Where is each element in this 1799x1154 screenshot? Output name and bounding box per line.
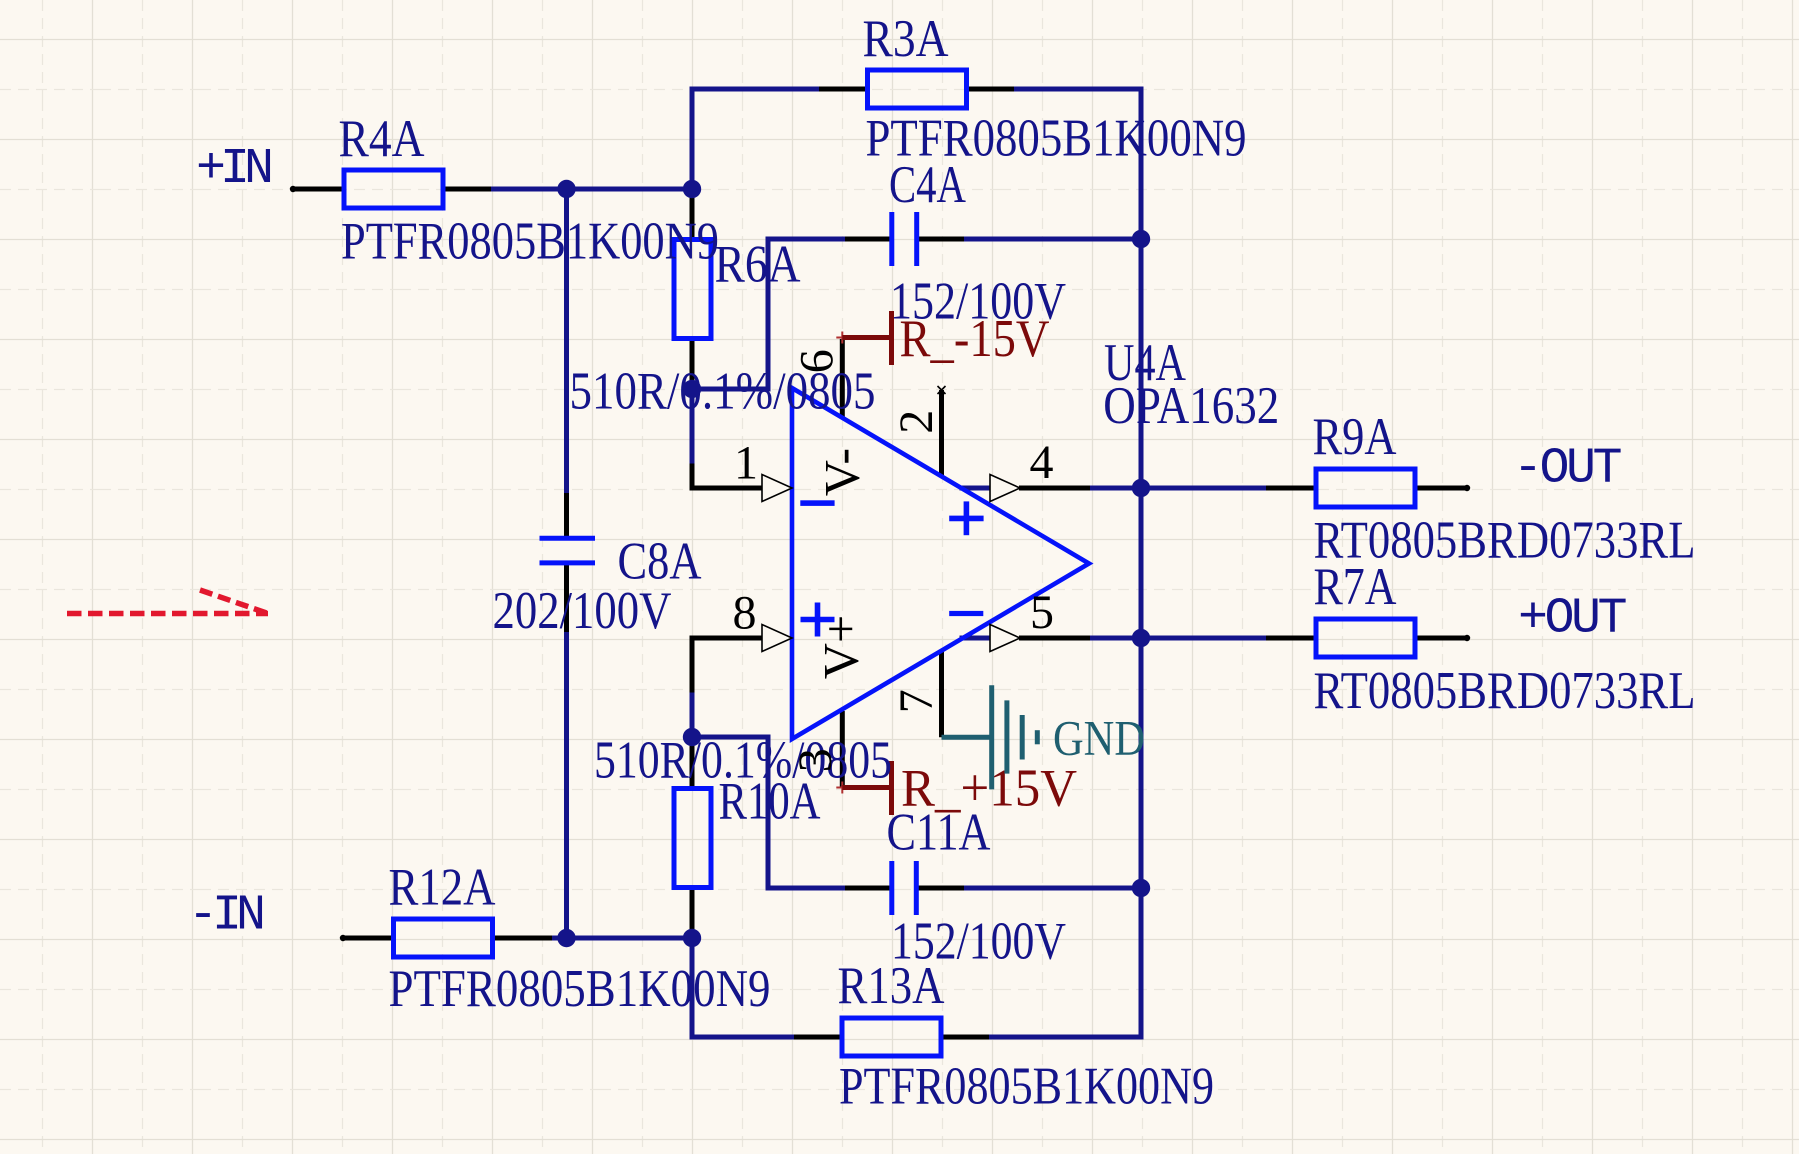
node +IN port end [290, 186, 296, 192]
node -IN port end [340, 935, 346, 941]
svg-text:C11A: C11A [887, 804, 991, 862]
svg-text:-IN: -IN [188, 888, 263, 945]
wire +IN node horizontal [490, 187, 692, 192]
svg-text:R7A: R7A [1314, 558, 1397, 616]
wire pin 1 lead [692, 466, 765, 488]
junction [1132, 629, 1150, 647]
wire -IN port lead [343, 936, 393, 941]
op-amp plus marker pin4 [949, 501, 983, 535]
power connection marker pin3 [836, 782, 848, 794]
svg-text:510R/0.1%/0805: 510R/0.1%/0805 [594, 732, 892, 790]
resistor R3A body [868, 70, 967, 108]
op-amp plus marker pin8 [801, 603, 835, 637]
svg-text:V-: V- [814, 448, 870, 496]
svg-text:152/100V: 152/100V [890, 273, 1066, 331]
wire R6A bottom lead [690, 338, 695, 390]
svg-text:8: 8 [733, 587, 757, 640]
svg-text:PTFR0805B1K00N9: PTFR0805B1K00N9 [389, 960, 771, 1018]
wire C8A bottom lead [564, 565, 569, 632]
pin 6 lead [840, 339, 845, 417]
svg-text:OPA1632: OPA1632 [1103, 377, 1279, 435]
wire R13A left lead [794, 1035, 842, 1040]
svg-text:R9A: R9A [1313, 408, 1397, 466]
wire R6A bottom to C4A [692, 239, 845, 389]
resistor R12A body [394, 919, 493, 957]
wire pin5 to R7A [1089, 636, 1266, 641]
capacitor C8A plates [540, 538, 596, 563]
pin 4 lead [1019, 486, 1090, 491]
resistor R9A body [1316, 469, 1415, 507]
op-amp U4A triangle [792, 388, 1089, 739]
resistor R4A body [344, 170, 443, 208]
wire C8A bottom feeder [564, 631, 569, 938]
svg-text:+OUT: +OUT [1518, 591, 1627, 648]
junction [683, 929, 701, 947]
svg-text:V+: V+ [813, 615, 869, 679]
wire R3A right to rail [968, 87, 1141, 92]
wire R4A right lead [444, 187, 491, 192]
power symbol R_-15V [842, 311, 891, 365]
wire right vertical rail [1139, 89, 1144, 1037]
wire R10A top lead [690, 737, 695, 789]
svg-text:R3A: R3A [863, 10, 949, 68]
pin 8 arrow [762, 625, 792, 652]
pin 5 lead [1019, 636, 1090, 641]
wire R9A left lead [1266, 486, 1314, 491]
wire C8A top feeder [564, 189, 569, 494]
svg-text:7: 7 [890, 689, 943, 713]
node -OUT port end [1464, 485, 1470, 491]
op-amp minus marker pin5 [949, 611, 983, 616]
resistor R6A body [674, 240, 711, 339]
wire R9A right lead [1417, 486, 1467, 491]
wire pin4 stub [962, 486, 993, 491]
wire C11A left lead [845, 886, 890, 891]
wire pin 8 lead [692, 638, 765, 690]
svg-text:6: 6 [790, 349, 843, 373]
power symbol R_+15V [842, 761, 891, 815]
wire pin8 node to C11A [692, 737, 845, 888]
op-amp minus marker pin1 [800, 500, 834, 506]
wire R10A bottom lead [690, 887, 695, 939]
wire R3A left lead [819, 87, 867, 92]
pin 7 lead [939, 650, 944, 737]
wire -IN node to R13A [692, 938, 794, 1037]
svg-text:R4A: R4A [339, 110, 425, 168]
wire +IN port lead [293, 187, 343, 192]
resistor R13A body [842, 1018, 941, 1056]
node +OUT port end [1464, 635, 1470, 641]
svg-text:PTFR0805B1K00N9: PTFR0805B1K00N9 [341, 213, 719, 271]
resistor R10A body [674, 789, 711, 888]
junction [683, 180, 701, 198]
svg-text:152/100V: 152/100V [891, 913, 1066, 971]
wire R12A right lead [493, 936, 552, 941]
ground GND symbol [942, 685, 1038, 789]
svg-text:R12A: R12A [389, 859, 496, 917]
svg-text:5: 5 [1030, 586, 1054, 639]
svg-text:PTFR0805B1K00N9: PTFR0805B1K00N9 [839, 1058, 1214, 1116]
wire from pin8 corner [690, 689, 695, 737]
svg-text:R6A: R6A [715, 236, 801, 294]
svg-text:1: 1 [734, 437, 758, 490]
wire C4A right [963, 237, 1141, 242]
svg-text:3: 3 [789, 748, 842, 772]
pin 2 unconnected end marker [938, 386, 946, 394]
wire C11A right [963, 886, 1141, 891]
capacitor C11A plates [892, 861, 917, 915]
power connection marker pin6 [836, 332, 848, 344]
junction [683, 728, 701, 746]
wire R13A right to rail [988, 1035, 1141, 1040]
red dashed arrow marker [67, 590, 268, 614]
svg-text:202/100V: 202/100V [493, 582, 672, 640]
wire R6A top lead [690, 191, 695, 240]
pin 4 arrow [990, 475, 1020, 502]
pin 3 lead [840, 711, 845, 788]
wire R7A right lead [1417, 636, 1467, 641]
wire -IN node horizontal [551, 936, 692, 941]
svg-text:RT0805BRD0733RL: RT0805BRD0733RL [1314, 662, 1696, 720]
svg-text:GND: GND [1053, 710, 1145, 766]
svg-text:C4A: C4A [889, 156, 966, 214]
svg-text:4: 4 [1030, 436, 1054, 489]
pin 1 arrow [762, 475, 792, 502]
junction [1132, 479, 1150, 497]
junction [1132, 879, 1150, 897]
wire C4A right lead [918, 237, 964, 242]
wire pin5 stub [962, 636, 993, 641]
capacitor C4A plates [892, 212, 917, 266]
resistor R7A body [1316, 619, 1415, 657]
junction [1132, 230, 1150, 248]
wire pin4 to R9A [1089, 486, 1266, 491]
wire C4A left lead [845, 237, 890, 242]
svg-text:2: 2 [890, 410, 943, 434]
wire C8A top lead [564, 493, 569, 536]
wire R13A right lead [941, 1035, 989, 1040]
pin 2 lead [939, 390, 944, 476]
wire -OUT net top-left corner [692, 89, 820, 189]
svg-text:+IN: +IN [196, 141, 271, 198]
junction [557, 929, 575, 947]
junction [683, 380, 701, 398]
wire R7A left lead [1266, 636, 1314, 641]
wire R3A right lead [967, 87, 1014, 92]
pin 5 arrow [990, 625, 1020, 652]
wire C11A right lead [918, 886, 964, 891]
wire to pin1 corner [690, 389, 695, 467]
junction [557, 180, 575, 198]
svg-text:-OUT: -OUT [1513, 441, 1622, 498]
